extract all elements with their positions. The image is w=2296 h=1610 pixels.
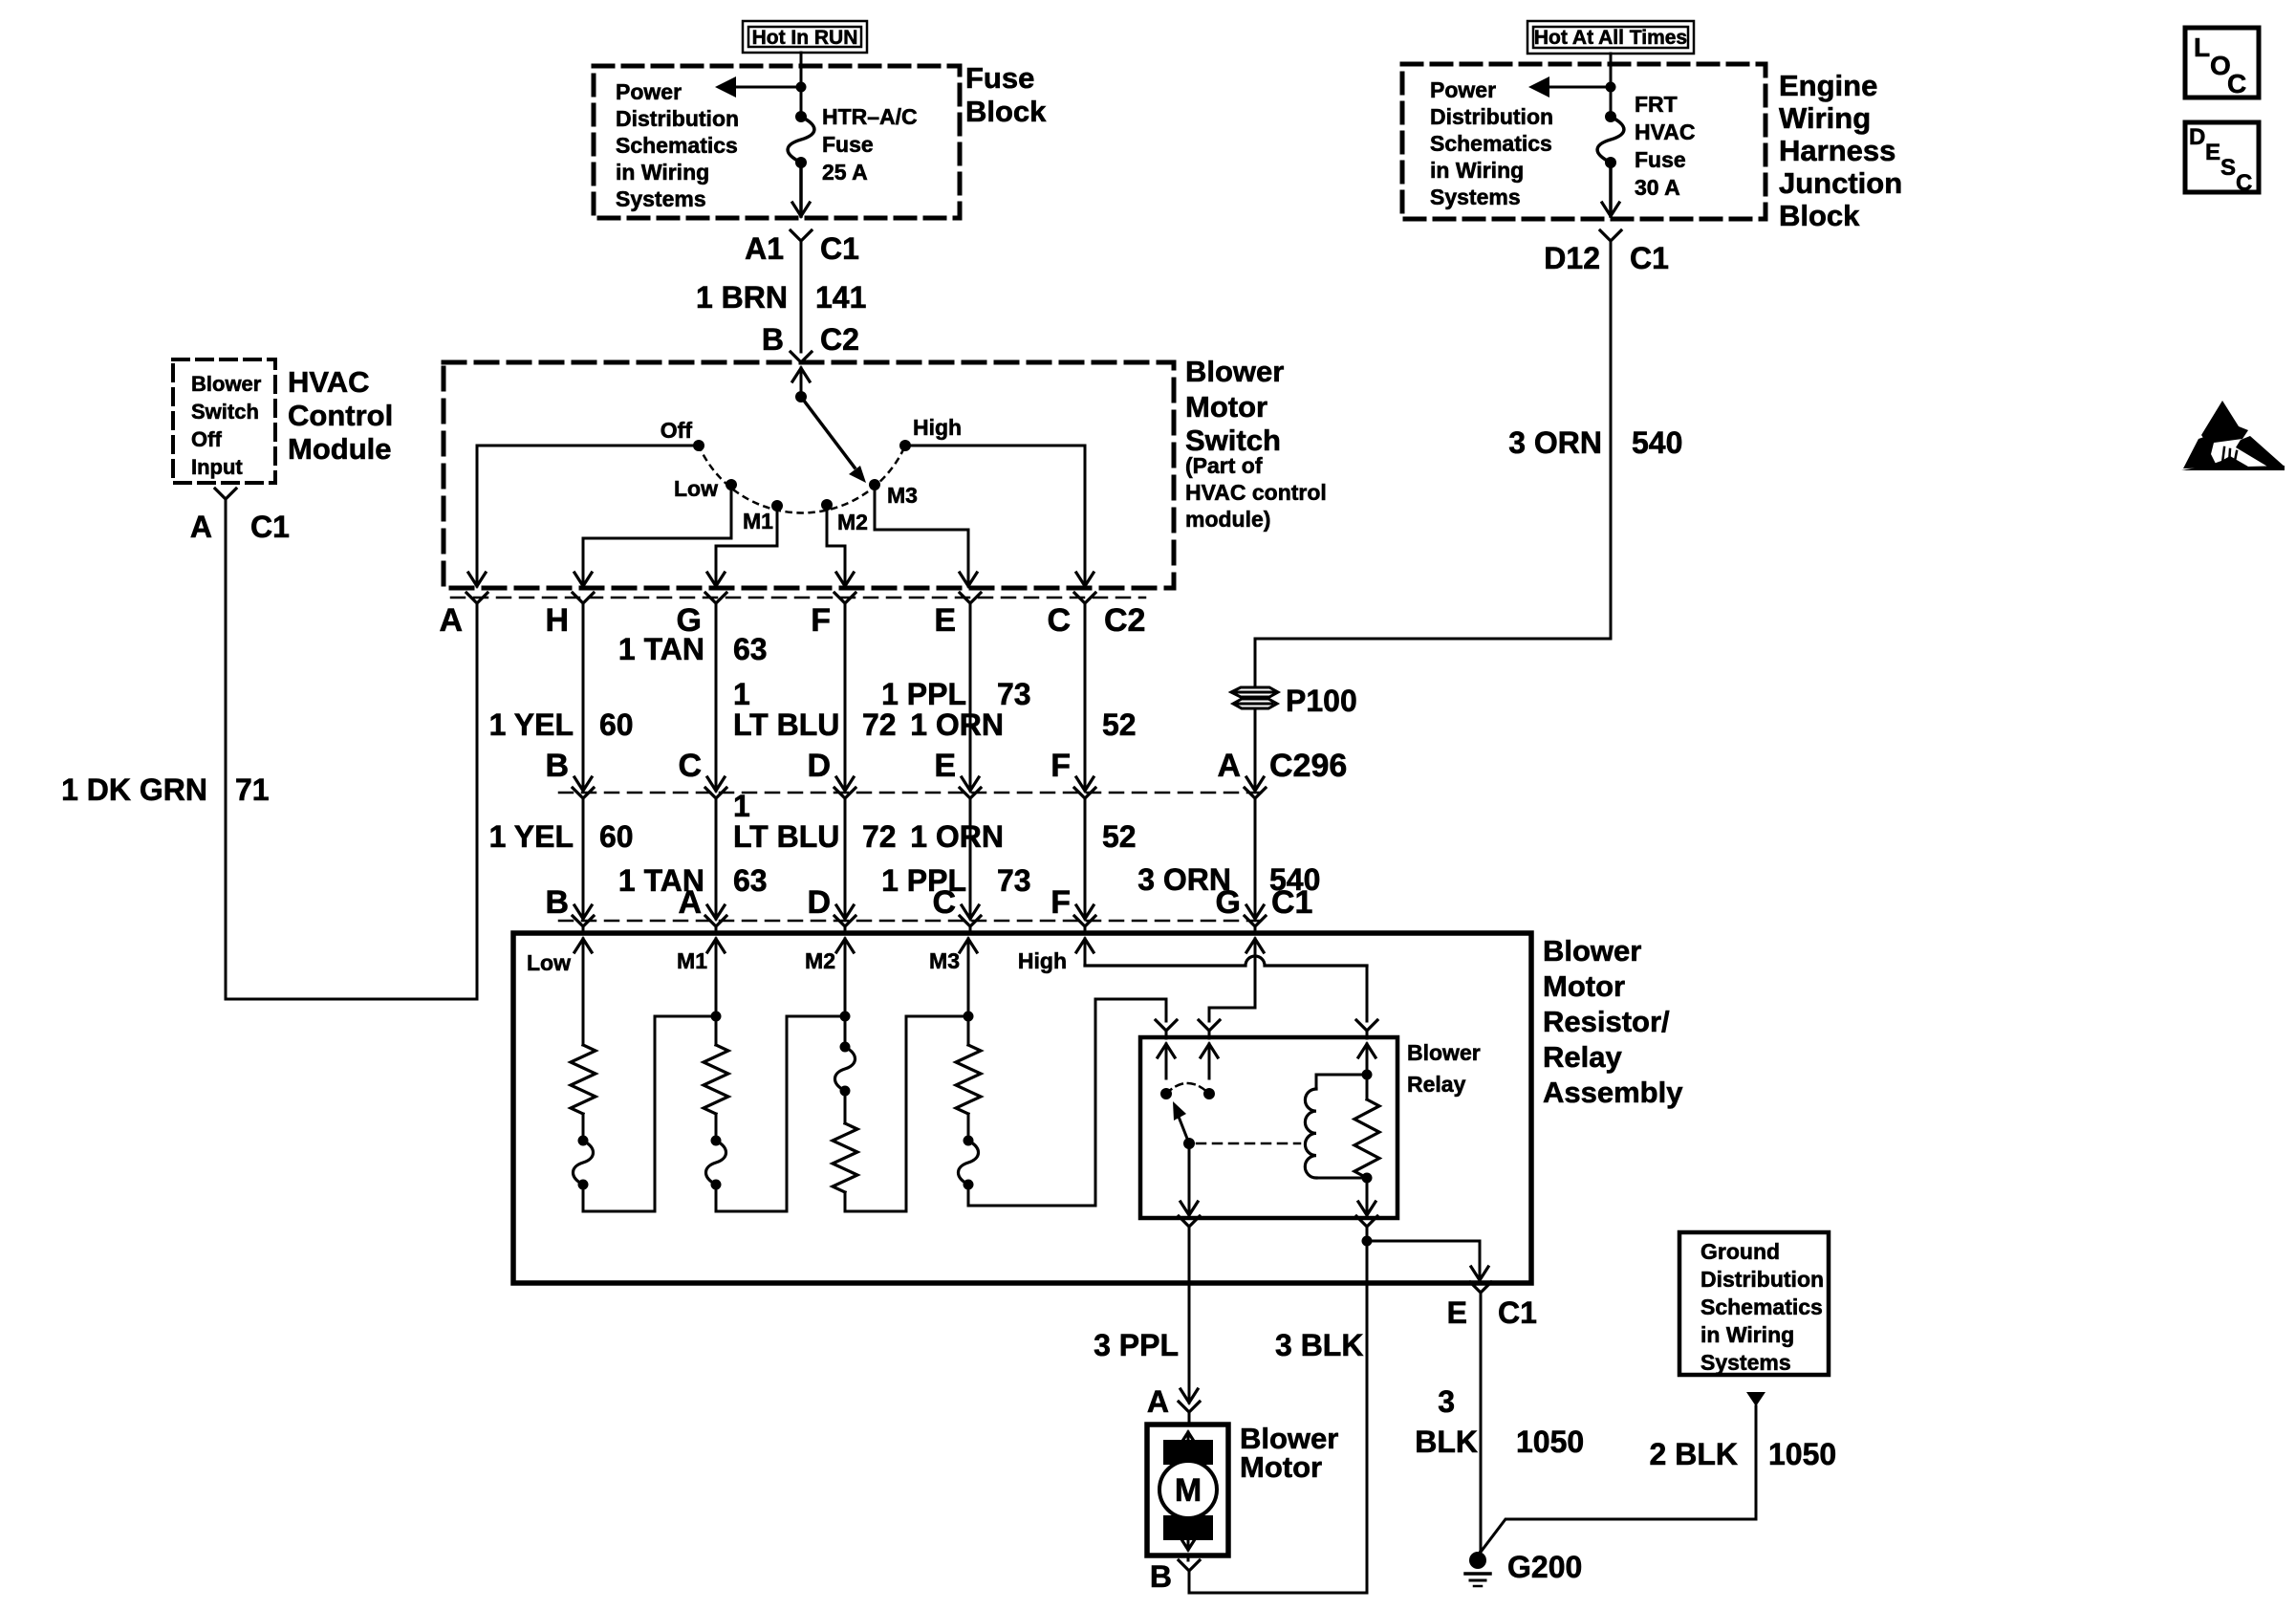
svg-text:A: A <box>190 510 212 544</box>
svg-text:1 ORN: 1 ORN <box>910 707 1004 742</box>
svg-text:1 BRN: 1 BRN <box>696 280 788 315</box>
svg-text:in Wiring: in Wiring <box>616 160 709 185</box>
svg-text:Harness: Harness <box>1779 134 1895 167</box>
svg-text:in Wiring: in Wiring <box>1700 1322 1794 1347</box>
svg-text:Switch: Switch <box>1185 424 1281 457</box>
svg-text:F: F <box>1051 748 1071 784</box>
svg-text:Resistor/: Resistor/ <box>1543 1005 1670 1038</box>
svg-text:D: D <box>807 884 831 921</box>
svg-text:A: A <box>1217 748 1241 784</box>
svg-text:S: S <box>2220 155 2236 181</box>
svg-text:Input: Input <box>191 455 243 479</box>
svg-text:B: B <box>1150 1559 1172 1594</box>
svg-text:M1: M1 <box>743 509 773 533</box>
svg-text:1 YEL: 1 YEL <box>489 819 574 854</box>
svg-text:M: M <box>1175 1472 1202 1509</box>
svg-text:Schematics: Schematics <box>1700 1295 1823 1319</box>
svg-text:Hot At All Times: Hot At All Times <box>1534 27 1687 49</box>
svg-text:HVAC control: HVAC control <box>1185 480 1327 505</box>
svg-text:Low: Low <box>527 950 571 975</box>
svg-text:LT BLU: LT BLU <box>733 819 839 854</box>
svg-text:Power: Power <box>616 79 682 104</box>
svg-text:Blower: Blower <box>1185 355 1284 388</box>
svg-text:M3: M3 <box>887 483 918 508</box>
svg-text:G200: G200 <box>1507 1550 1582 1584</box>
svg-text:1 TAN: 1 TAN <box>618 632 704 666</box>
svg-text:A1: A1 <box>745 231 784 266</box>
svg-text:1 DK GRN: 1 DK GRN <box>61 772 207 807</box>
svg-text:BLK: BLK <box>1415 1425 1478 1459</box>
svg-text:HVAC: HVAC <box>1635 120 1695 144</box>
svg-text:1050: 1050 <box>1516 1425 1584 1459</box>
svg-text:1 YEL: 1 YEL <box>489 707 574 742</box>
svg-text:Fuse: Fuse <box>822 132 874 157</box>
svg-text:Systems: Systems <box>1700 1350 1791 1375</box>
svg-text:M2: M2 <box>805 948 835 973</box>
svg-text:Switch: Switch <box>191 400 259 424</box>
svg-text:High: High <box>913 415 962 440</box>
svg-text:Block: Block <box>965 95 1047 128</box>
svg-text:71: 71 <box>235 772 270 807</box>
svg-text:Motor: Motor <box>1185 390 1267 424</box>
svg-text:Off: Off <box>661 418 693 443</box>
svg-text:141: 141 <box>815 280 866 315</box>
svg-text:High: High <box>1018 948 1067 973</box>
svg-text:Junction: Junction <box>1779 166 1902 200</box>
svg-text:Hot In RUN: Hot In RUN <box>752 27 858 49</box>
svg-text:3 ORN: 3 ORN <box>1508 425 1602 460</box>
svg-text:1: 1 <box>733 789 750 823</box>
svg-text:C1: C1 <box>250 510 290 544</box>
svg-text:Motor: Motor <box>1240 1450 1322 1484</box>
svg-text:(Part of: (Part of <box>1185 453 1263 478</box>
svg-text:P100: P100 <box>1286 684 1357 718</box>
svg-text:B: B <box>762 322 784 357</box>
svg-text:1 PPL: 1 PPL <box>881 677 966 711</box>
svg-text:Distribution: Distribution <box>1430 104 1553 129</box>
svg-text:Ground: Ground <box>1700 1239 1780 1264</box>
svg-text:73: 73 <box>997 677 1031 711</box>
svg-text:60: 60 <box>599 707 634 742</box>
svg-text:A: A <box>1147 1384 1169 1419</box>
svg-text:Distribution: Distribution <box>616 106 739 131</box>
svg-text:E: E <box>1447 1295 1467 1330</box>
svg-text:F: F <box>1051 884 1071 921</box>
svg-text:3 BLK: 3 BLK <box>1275 1328 1363 1362</box>
svg-text:Assembly: Assembly <box>1543 1076 1683 1109</box>
svg-text:C2: C2 <box>820 322 859 357</box>
svg-text:G: G <box>1216 884 1241 921</box>
svg-text:F: F <box>811 602 831 639</box>
svg-text:FRT: FRT <box>1635 92 1678 117</box>
svg-text:63: 63 <box>733 632 768 666</box>
svg-text:Motor: Motor <box>1543 969 1625 1003</box>
svg-text:C2: C2 <box>1104 602 1145 639</box>
svg-text:Schematics: Schematics <box>1430 131 1552 156</box>
svg-text:Relay: Relay <box>1543 1040 1622 1074</box>
svg-text:E: E <box>934 748 956 784</box>
svg-text:1050: 1050 <box>1768 1437 1836 1471</box>
svg-text:C1: C1 <box>820 231 859 266</box>
svg-text:Fuse: Fuse <box>1635 147 1686 172</box>
svg-text:C: C <box>2236 170 2252 196</box>
svg-text:Schematics: Schematics <box>616 133 738 158</box>
svg-text:C1: C1 <box>1271 884 1312 921</box>
svg-text:72: 72 <box>862 707 897 742</box>
svg-text:H: H <box>545 602 569 639</box>
svg-text:module): module) <box>1185 507 1270 532</box>
svg-text:C1: C1 <box>1498 1295 1537 1330</box>
svg-text:C1: C1 <box>1630 241 1669 275</box>
svg-text:A: A <box>678 884 702 921</box>
svg-text:3: 3 <box>1438 1384 1455 1419</box>
svg-text:Distribution: Distribution <box>1700 1267 1824 1292</box>
svg-text:Off: Off <box>191 427 222 451</box>
svg-text:C: C <box>2227 69 2246 98</box>
svg-text:Blower: Blower <box>1543 934 1641 968</box>
svg-text:Module: Module <box>288 432 392 466</box>
svg-text:60: 60 <box>599 819 634 854</box>
svg-text:L: L <box>2194 33 2210 62</box>
svg-text:D12: D12 <box>1544 241 1600 275</box>
svg-text:25 A: 25 A <box>822 160 868 185</box>
svg-text:HVAC: HVAC <box>288 365 370 399</box>
svg-text:52: 52 <box>1102 819 1137 854</box>
svg-text:E: E <box>934 602 956 639</box>
svg-text:Block: Block <box>1779 199 1860 232</box>
svg-text:M2: M2 <box>837 510 868 534</box>
svg-text:63: 63 <box>733 863 768 898</box>
svg-text:Blower: Blower <box>1407 1040 1481 1065</box>
svg-text:M3: M3 <box>929 948 960 973</box>
svg-text:3 PPL: 3 PPL <box>1094 1328 1179 1362</box>
svg-text:Power: Power <box>1430 77 1496 102</box>
svg-text:Wiring: Wiring <box>1779 101 1871 135</box>
svg-text:540: 540 <box>1632 425 1682 460</box>
svg-text:Fuse: Fuse <box>965 61 1034 95</box>
svg-text:B: B <box>545 748 569 784</box>
svg-text:HTR–A/C: HTR–A/C <box>822 104 918 129</box>
svg-text:52: 52 <box>1102 707 1137 742</box>
svg-text:Control: Control <box>288 399 393 432</box>
svg-text:Low: Low <box>674 476 718 501</box>
svg-text:LT BLU: LT BLU <box>733 707 839 742</box>
svg-text:B: B <box>545 884 569 921</box>
svg-text:Relay: Relay <box>1407 1072 1466 1097</box>
svg-text:Engine: Engine <box>1779 69 1877 102</box>
svg-text:73: 73 <box>997 863 1031 898</box>
svg-text:D: D <box>807 748 831 784</box>
svg-text:E: E <box>2205 140 2220 165</box>
svg-text:C: C <box>678 748 702 784</box>
svg-text:1 ORN: 1 ORN <box>910 819 1004 854</box>
svg-text:Systems: Systems <box>616 186 706 211</box>
svg-text:C296: C296 <box>1269 748 1347 784</box>
svg-text:A: A <box>439 602 463 639</box>
svg-text:M1: M1 <box>677 948 707 973</box>
svg-text:C: C <box>932 884 956 921</box>
svg-text:C: C <box>1047 602 1071 639</box>
svg-text:Blower: Blower <box>191 372 262 396</box>
svg-text:72: 72 <box>862 819 897 854</box>
svg-text:Systems: Systems <box>1430 185 1521 209</box>
svg-text:2 BLK: 2 BLK <box>1650 1437 1738 1471</box>
svg-text:1: 1 <box>733 677 750 711</box>
svg-text:in Wiring: in Wiring <box>1430 158 1524 183</box>
svg-text:30 A: 30 A <box>1635 175 1680 200</box>
svg-text:D: D <box>2189 124 2205 150</box>
